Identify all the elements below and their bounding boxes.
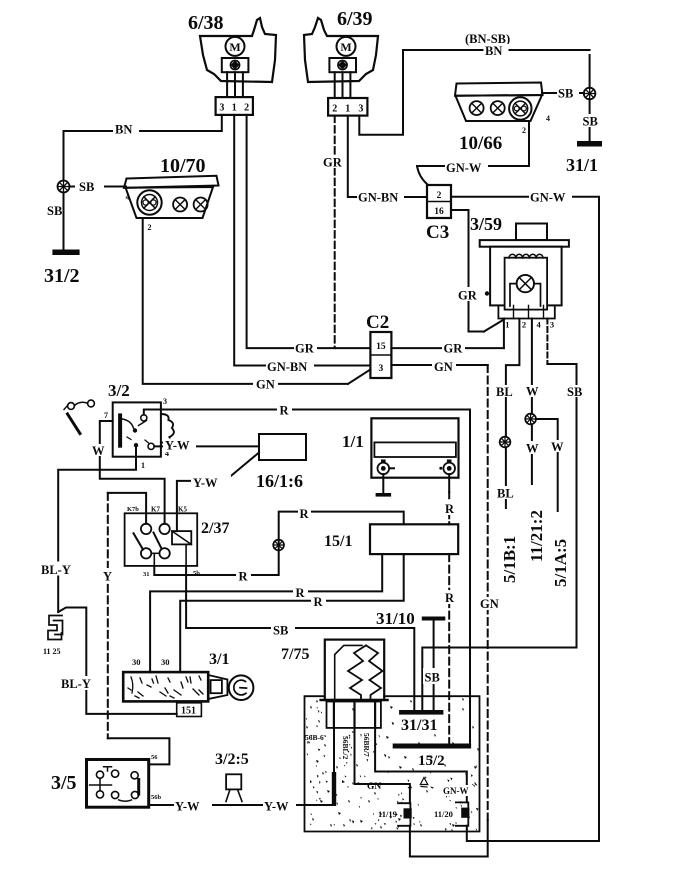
svg-text:R: R bbox=[445, 502, 455, 516]
svg-text:11/20: 11/20 bbox=[434, 809, 453, 819]
connector 2 1 3 of 6/39 bbox=[328, 98, 367, 116]
svg-text:Y-W: Y-W bbox=[165, 439, 190, 453]
svg-text:6/39: 6/39 bbox=[337, 8, 373, 30]
wire label Y-W bottom right bbox=[263, 798, 296, 812]
wire BL-Y from 11/25 to 3/1 pin151 bbox=[58, 608, 177, 714]
wire GR from C2 pin15 to 3/59 pin1 bbox=[391, 347, 504, 349]
wire label W of 3/2 bbox=[91, 444, 106, 456]
svg-text:K7b: K7b bbox=[127, 506, 139, 513]
wire W branch to 5/1A:5 bbox=[536, 419, 558, 511]
svg-text:SB: SB bbox=[273, 624, 288, 638]
svg-text:M: M bbox=[340, 40, 351, 54]
svg-text:GN-W: GN-W bbox=[446, 161, 482, 175]
wire W from 3/2 to 2/37 pinK7 bbox=[100, 421, 165, 524]
svg-text:31/1: 31/1 bbox=[566, 155, 598, 175]
wire label BL-Y lower bbox=[60, 676, 98, 690]
wire label R from 2/37 bbox=[236, 569, 251, 582]
svg-text:GN: GN bbox=[256, 378, 275, 392]
wire BN from 6/38 pin3 to splice bbox=[64, 115, 222, 181]
wire GN from 7/75 pin56BL to 11/19 bbox=[355, 728, 410, 803]
svg-text:C2: C2 bbox=[366, 312, 389, 333]
svg-text:GN: GN bbox=[367, 782, 381, 792]
6/38 pin wires to connector bbox=[227, 72, 243, 97]
svg-text:4: 4 bbox=[536, 320, 541, 330]
wire label SB of 3/59 bbox=[566, 385, 587, 397]
svg-text:15/2: 15/2 bbox=[418, 753, 445, 769]
ground 31/1 bbox=[577, 141, 602, 147]
wire label SB at 10/66 bbox=[557, 86, 579, 99]
svg-text:2: 2 bbox=[244, 103, 249, 114]
ground point 31/10 bar bbox=[422, 617, 446, 621]
wire label GR on C3-16 wire bbox=[457, 287, 480, 301]
svg-text:R: R bbox=[296, 586, 306, 600]
svg-text:2: 2 bbox=[148, 223, 152, 232]
wire label BL-Y upper bbox=[40, 562, 78, 576]
splice on SB near 10/66 bbox=[584, 88, 596, 100]
wire BL from 3/59 pin2 bbox=[506, 319, 520, 509]
feed bus 15/2 bbox=[393, 744, 471, 749]
svg-text:7/75: 7/75 bbox=[281, 646, 309, 663]
ignition switch 3/2 bbox=[113, 402, 174, 456]
svg-text:7: 7 bbox=[104, 411, 108, 420]
svg-text:3/2:5: 3/2:5 bbox=[215, 751, 249, 768]
wiper motor 6/39 bbox=[304, 18, 378, 82]
svg-text:GR: GR bbox=[295, 342, 315, 356]
svg-text:GN: GN bbox=[480, 597, 499, 611]
svg-text:3: 3 bbox=[379, 364, 384, 374]
wire GN from C2 pin3 to 11/19 bbox=[391, 365, 487, 857]
svg-text:15: 15 bbox=[376, 342, 386, 352]
svg-text:BN: BN bbox=[115, 123, 132, 137]
svg-text:Y-W: Y-W bbox=[175, 800, 200, 814]
wire W from 3/59 pin4 bbox=[531, 319, 533, 485]
svg-text:4: 4 bbox=[126, 193, 130, 202]
svg-text:10/66: 10/66 bbox=[459, 133, 502, 154]
wire label GN-W right bbox=[529, 190, 572, 203]
svg-text:Y-W: Y-W bbox=[193, 476, 218, 490]
svg-text:GN-BN: GN-BN bbox=[358, 191, 398, 205]
connector tap 3/2:5 bbox=[226, 774, 242, 801]
wire R from 15/1 to 15/2 bus bbox=[448, 554, 450, 743]
wire label Y-W bottom left bbox=[174, 798, 212, 812]
svg-text:K7: K7 bbox=[151, 506, 160, 514]
wire SB from 2/37 to 31/31 bus bbox=[186, 566, 414, 710]
wire GN from 10/70 pin2 to C2 pin3 bbox=[143, 218, 371, 384]
wire label GN-BN to C3 bbox=[357, 190, 404, 203]
svg-text:31/10: 31/10 bbox=[376, 609, 415, 628]
wire label Y bbox=[101, 568, 115, 582]
svg-text:1/1: 1/1 bbox=[342, 432, 364, 451]
wire label R to 3/1 b bbox=[311, 594, 326, 608]
wire label SB mid bbox=[271, 622, 295, 636]
warning triangle mark bbox=[420, 778, 428, 788]
wire from 31/10 to 31/31 bus bbox=[433, 621, 435, 711]
wire label SB above 31/1 bbox=[581, 114, 602, 127]
svg-text:3: 3 bbox=[219, 103, 224, 114]
wire label GN-W upper bbox=[445, 160, 488, 173]
wire label W branch bbox=[550, 440, 564, 452]
connector C2 bbox=[370, 332, 391, 378]
svg-text:GR: GR bbox=[458, 289, 478, 303]
wire SB splice to 10/70 pin4 bbox=[70, 186, 127, 188]
svg-text:2: 2 bbox=[522, 126, 526, 135]
wire label GR right of C2 bbox=[442, 341, 465, 354]
ground bus 31/31 bbox=[399, 710, 443, 715]
wire label Y-W lower bbox=[191, 475, 231, 488]
wire R from 15/1 to 3/1 pin30a bbox=[150, 554, 382, 672]
wire label GN right of C2 bbox=[432, 359, 456, 372]
svg-text:11 25: 11 25 bbox=[43, 647, 61, 656]
washer pump switch 3/5 bbox=[87, 760, 149, 808]
fuse box 1/1 bbox=[371, 418, 458, 496]
svg-text:11/21:2: 11/21:2 bbox=[527, 510, 546, 562]
svg-text:GR: GR bbox=[323, 156, 343, 170]
relay carrier box (stippled) bbox=[305, 696, 480, 831]
wire SB splice to ground 31/1 bbox=[589, 55, 591, 141]
svg-text:2: 2 bbox=[437, 191, 442, 201]
svg-text:BL-Y: BL-Y bbox=[41, 563, 71, 577]
wire label R splice upper bbox=[298, 507, 311, 520]
splice on W wire bbox=[525, 414, 536, 425]
svg-text:31/2: 31/2 bbox=[44, 265, 80, 287]
svg-text:3: 3 bbox=[550, 320, 554, 330]
svg-text:56: 56 bbox=[151, 754, 158, 761]
wire SB from 3/59 pin3 to 31/31 bus bbox=[422, 364, 576, 710]
ground 31/2 bbox=[52, 250, 79, 256]
wire SB splice to ground 31/2 bbox=[63, 193, 65, 250]
svg-text:K5: K5 bbox=[178, 506, 187, 514]
wire BL-Y from 3/2 pin1 to 11/25 bbox=[58, 445, 136, 612]
svg-text:SB: SB bbox=[79, 180, 94, 194]
svg-text:SB: SB bbox=[567, 385, 582, 399]
svg-text:30: 30 bbox=[132, 657, 141, 667]
wire label BN top bbox=[484, 44, 509, 57]
svg-text:31: 31 bbox=[143, 571, 150, 578]
svg-text:GN-W: GN-W bbox=[530, 191, 566, 205]
svg-text:30: 30 bbox=[161, 657, 170, 667]
wire label SB right of splice bbox=[75, 179, 104, 193]
wire Y-W from 2/37 pinK5 to 16/1:6 bbox=[177, 453, 259, 532]
wire GN-BN from 6/39 pin1 to C3 bbox=[348, 116, 427, 197]
svg-text:5b: 5b bbox=[193, 570, 200, 577]
svg-text:W: W bbox=[526, 442, 539, 456]
connector C3 bbox=[427, 185, 451, 218]
ignition lock 3/1 bbox=[123, 672, 253, 716]
svg-text:56b: 56b bbox=[151, 794, 162, 801]
wire R from 2/37 to 15/1 via splice bbox=[154, 512, 403, 575]
splice on BN/SB near 10/70 bbox=[58, 181, 70, 193]
svg-text:SB: SB bbox=[583, 115, 598, 129]
svg-text:56BR/7: 56BR/7 bbox=[362, 733, 371, 757]
wire label BL of 3/59 bbox=[495, 385, 513, 397]
inline connector 11/19 bbox=[398, 803, 412, 826]
svg-text:R: R bbox=[300, 507, 310, 521]
svg-text:W: W bbox=[526, 385, 539, 399]
wire label W mid bbox=[525, 441, 540, 454]
wire label GN dashed bbox=[479, 597, 501, 610]
svg-text:2: 2 bbox=[522, 320, 526, 330]
inline connector 11/25 bbox=[48, 616, 63, 640]
svg-text:M: M bbox=[229, 40, 240, 54]
splice on R wire bbox=[273, 540, 284, 551]
wire label R below 15/1 bbox=[443, 590, 456, 604]
svg-text:3/1: 3/1 bbox=[209, 651, 229, 668]
wire label R to 3/1 a bbox=[293, 586, 308, 599]
wire label BL lower bbox=[496, 486, 513, 499]
svg-text:3: 3 bbox=[163, 397, 167, 406]
svg-text:GN: GN bbox=[434, 360, 453, 374]
splice on BL wire bbox=[500, 437, 511, 448]
svg-text:SB: SB bbox=[47, 204, 62, 218]
svg-text:C3: C3 bbox=[426, 222, 449, 243]
svg-text:3/59: 3/59 bbox=[470, 214, 502, 234]
svg-text:GN-W: GN-W bbox=[443, 786, 469, 796]
svg-text:10/70: 10/70 bbox=[160, 155, 206, 177]
svg-text:151: 151 bbox=[181, 706, 196, 717]
wire label GN-BN left of C2 bbox=[266, 359, 314, 372]
svg-text:BL: BL bbox=[496, 385, 513, 399]
svg-text:1: 1 bbox=[505, 320, 509, 330]
wire R from 15/1 to 3/1 pin30b bbox=[180, 554, 404, 672]
svg-text:2: 2 bbox=[332, 103, 337, 114]
svg-text:6/38: 6/38 bbox=[188, 12, 224, 34]
svg-text:31/31: 31/31 bbox=[401, 717, 437, 734]
svg-text:BL: BL bbox=[497, 487, 514, 501]
intermittent wiper relay 7/75 bbox=[321, 640, 388, 728]
wire SB from 10/66 to splice bbox=[542, 92, 584, 94]
wire label GR left of C2 bbox=[294, 341, 317, 354]
wire label GN left of C2 bbox=[253, 377, 278, 390]
lamp cluster 10/66 bbox=[455, 83, 550, 136]
wire R from 3/2 pin3 to 15/2 bus bbox=[144, 410, 470, 744]
wiper relay 2/37 bbox=[125, 513, 198, 566]
wire GN-W from 10/66 pin2 to C3 bbox=[417, 121, 529, 184]
svg-text:5/1A:5: 5/1A:5 bbox=[551, 539, 570, 587]
svg-text:W: W bbox=[551, 440, 564, 454]
svg-text:56BL/2: 56BL/2 bbox=[341, 736, 350, 760]
inline connector 11/20 bbox=[456, 802, 470, 825]
svg-text:4: 4 bbox=[546, 114, 550, 123]
wire label R at 1/1 bbox=[443, 501, 456, 515]
wire label W of 3/59 bbox=[525, 385, 541, 397]
svg-text:56B-6: 56B-6 bbox=[305, 733, 324, 742]
connector 3 1 2 of 6/38 bbox=[216, 97, 253, 115]
svg-text:GN-BN: GN-BN bbox=[267, 360, 307, 374]
wire GN-W from C3 to 11/20 bbox=[451, 197, 599, 841]
wire GR from C3 pin16 to 3/59 pin1 bbox=[451, 210, 504, 348]
svg-text:Y-W: Y-W bbox=[264, 800, 289, 814]
wire R from 1/1 to 15/1 bbox=[448, 492, 450, 524]
wiper motor 6/38 bbox=[200, 18, 276, 82]
wire label Y-W upper bbox=[163, 439, 196, 453]
svg-text:Y: Y bbox=[103, 570, 112, 584]
6/39 pin wires to connector bbox=[335, 72, 351, 98]
svg-text:1: 1 bbox=[141, 461, 145, 470]
lamp cluster 10/70 bbox=[124, 176, 219, 232]
svg-text:BL-Y: BL-Y bbox=[61, 677, 91, 691]
svg-text:5/1B:1: 5/1B:1 bbox=[500, 536, 519, 583]
terminal box 16/1:6 bbox=[259, 434, 306, 460]
stipple dots bbox=[306, 698, 479, 831]
svg-text:R: R bbox=[280, 404, 290, 418]
svg-text:16: 16 bbox=[434, 207, 444, 217]
svg-text:1: 1 bbox=[232, 103, 237, 114]
wire label SB at 31/10 bbox=[423, 668, 444, 684]
svg-text:11/19: 11/19 bbox=[378, 809, 397, 819]
wire Y-W from 3/2 pin4 to 16/1:6 bbox=[154, 445, 259, 447]
wire BN-SB top bbox=[359, 50, 589, 135]
switch 3/59 bbox=[480, 224, 569, 330]
svg-text:W: W bbox=[92, 444, 105, 458]
svg-text:R: R bbox=[239, 570, 249, 584]
wire 56B-6 from 7/75 to Y-W bbox=[333, 728, 335, 772]
svg-text:15/1: 15/1 bbox=[324, 533, 352, 550]
svg-text:3/5: 3/5 bbox=[51, 772, 77, 794]
svg-text:3: 3 bbox=[358, 103, 363, 114]
svg-text:GR: GR bbox=[444, 342, 464, 356]
wire GN-BN from 6/38 pin1 to C2 pin3 bbox=[234, 115, 370, 366]
3/2 key symbol bbox=[64, 400, 94, 433]
svg-text:R: R bbox=[445, 591, 455, 605]
relay/module 15/1 bbox=[370, 524, 458, 554]
svg-text:2/37: 2/37 bbox=[201, 520, 229, 537]
svg-text:16/1:6: 16/1:6 bbox=[256, 471, 303, 491]
svg-text:3/2: 3/2 bbox=[108, 381, 130, 400]
wire Y-W from 3/5 pin56b to 7/75 bbox=[149, 804, 334, 806]
svg-text:SB: SB bbox=[558, 87, 573, 101]
wire label BN left bbox=[113, 122, 139, 135]
wire label R top bbox=[277, 403, 292, 416]
wire GN-W from 7/75 pin56BR to 11/20 bbox=[375, 728, 467, 803]
svg-text:R: R bbox=[314, 595, 324, 609]
wire Y from 2/37 pinK7b to 3/5 pin56 bbox=[108, 493, 170, 765]
svg-text:BN: BN bbox=[485, 44, 502, 58]
svg-text:1: 1 bbox=[345, 103, 350, 114]
svg-text:SB: SB bbox=[425, 671, 440, 685]
label GN-W at 11/20 bbox=[442, 785, 473, 796]
wire GR from motors to C2 pin15 bbox=[247, 115, 371, 348]
wire label GR on 6/39 wire bbox=[322, 155, 344, 168]
